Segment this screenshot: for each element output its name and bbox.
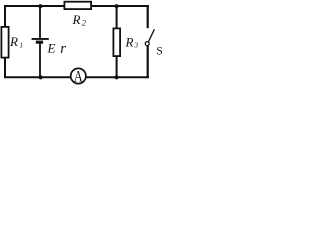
svg-text:A: A (74, 68, 84, 86)
wire: switch branch upper stub (147, 5, 149, 28)
svg-text:E: E (47, 40, 56, 55)
ammeter A: circle (71, 68, 86, 83)
resistor R2 (64, 2, 91, 9)
junction node: battery top (38, 4, 42, 8)
svg-text:r: r (60, 41, 66, 57)
svg-text:R3: R3 (125, 34, 139, 49)
junction node: battery bottom (39, 75, 43, 79)
wire: left rail (4, 5, 6, 78)
junction node: R3 bottom (115, 75, 119, 79)
resistor R1 (1, 27, 8, 58)
svg-text:R1: R1 (9, 34, 23, 49)
ammeter A: letter (74, 68, 84, 86)
switch S: contact circle (145, 42, 149, 46)
switch S: blade (148, 29, 154, 42)
svg-text:R2: R2 (72, 12, 86, 27)
wire: switch branch lower (147, 46, 149, 79)
wire: bottom rail (4, 76, 149, 78)
junction node: R3 top (115, 4, 119, 8)
wire: top rail (4, 5, 149, 7)
wire: battery branch lower (39, 43, 41, 77)
battery E: long plate (32, 38, 49, 40)
wire: battery branch upper (39, 6, 41, 39)
battery E: short thick plate (36, 41, 43, 44)
wire: R3 branch (116, 6, 118, 77)
resistor R3 (113, 28, 120, 56)
svg-text:S: S (156, 45, 162, 57)
